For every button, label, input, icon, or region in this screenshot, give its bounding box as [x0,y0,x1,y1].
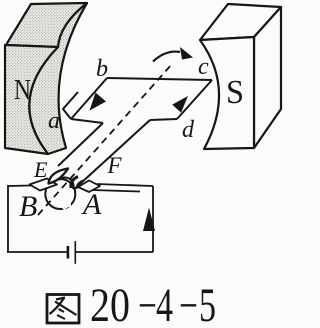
circuit bottom wire left [7,251,67,253]
coil near edge left [71,119,103,123]
svg-text:d: d [182,117,195,143]
shaft wire W1 [58,123,103,166]
magnet S: top face [200,4,281,40]
svg-text:F: F [107,153,123,178]
coil near edge right [150,119,177,120]
battery short plate [67,246,70,259]
svg-text:–: – [180,275,196,328]
svg-text:–: – [139,275,155,328]
svg-text:N: N [14,75,31,106]
rotation curved arrow [153,52,180,62]
magnet S: front face [200,37,254,149]
current arrow on dc [172,96,188,113]
current arrow on right wire [143,208,155,232]
svg-text:c: c [198,54,209,80]
svg-text:S: S [226,74,244,111]
magnet N: concave pole surface [29,3,87,154]
circuit bottom wire right [75,251,153,253]
magnet N: top face [6,3,87,47]
circuit right wire [152,186,154,252]
battery long plate [74,241,76,264]
svg-text:A: A [81,188,102,221]
wire from B to circuit [8,185,31,188]
circuit left wire [7,185,9,252]
svg-text:E: E [33,157,48,182]
coil edge bc [107,78,212,80]
svg-text:5: 5 [199,279,216,328]
brush E pad [30,179,58,191]
shaft wire W2 [75,120,150,189]
current arrow on ab [90,93,107,111]
brush E contact [49,169,69,184]
magnet N: front face [5,45,58,154]
brush F contact [71,177,78,189]
commutator ring [45,179,75,209]
wire from A pad to circuit [97,184,153,186]
coil edge cd [177,80,212,119]
rotation axis (dashed) [38,64,172,215]
wire from A pad lower [92,190,140,192]
svg-text:B: B [19,190,37,223]
svg-text:a: a [48,108,60,134]
svg-text:b: b [96,56,108,82]
brush F pad [78,181,100,193]
svg-text:4: 4 [156,279,173,328]
coil edge ab [71,78,107,119]
caption 图 glyph [47,295,79,324]
svg-text:20: 20 [90,279,130,328]
commutator cylinder back arc [59,177,74,189]
coil wire-end notch at a [63,92,78,119]
magnet S: right face [254,7,281,148]
ring split gap [63,205,71,209]
